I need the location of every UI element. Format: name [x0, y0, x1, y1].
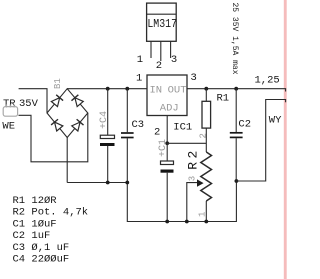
svg-text:C3 Ø,1 uF: C3 Ø,1 uF	[13, 242, 70, 254]
svg-text:2: 2	[156, 60, 162, 72]
capacitor C4 bottom wire	[107, 146, 109, 183]
svg-text:1,25: 1,25	[255, 75, 280, 87]
svg-text:35V: 35V	[19, 98, 39, 110]
svg-text:25 35V 1,5A max: 25 35V 1,5A max	[230, 3, 239, 75]
junction C2 bottom / output return node	[235, 179, 239, 183]
capacitor C3 plates	[121, 132, 134, 134]
capacitor C4 electrolytic: top wire	[107, 89, 109, 136]
svg-text:WY: WY	[269, 115, 282, 127]
svg-text:B1: B1	[53, 78, 63, 89]
capacitor C2: top wire	[235, 89, 237, 132]
svg-text:R2: R2	[186, 151, 201, 170]
resistor R1: top wire	[205, 89, 207, 102]
svg-text:C2: C2	[238, 119, 251, 131]
capacitor C4 negative plate (solid)	[100, 143, 115, 146]
capacitor C3: top wire	[126, 89, 128, 133]
junction C3 bottom	[125, 181, 129, 185]
svg-text:1: 1	[136, 73, 142, 85]
svg-text:LM317: LM317	[147, 18, 177, 31]
resistor R1 body	[202, 101, 211, 128]
capacitor C2 plates	[230, 132, 243, 134]
wire rail: bridge + output to IC1 IN	[67, 88, 147, 90]
resistor R1 bottom wire to pot	[205, 128, 207, 152]
bridge rectifier B1 diamond	[47, 89, 88, 138]
junction C4 top	[106, 87, 110, 91]
pink window border line (right edge)	[284, 0, 287, 279]
ground rail segment A	[67, 181, 236, 222]
pin leg 3	[170, 41, 172, 58]
wire ADJ node to pot top	[167, 142, 206, 144]
op-amp/regulator IC1 box	[147, 75, 187, 116]
svg-text:C1 1ØuF: C1 1ØuF	[13, 218, 57, 230]
capacitor C1 bottom wire	[166, 173, 168, 222]
svg-text:C4 22ØØuF: C4 22ØØuF	[13, 254, 70, 266]
svg-text:WE: WE	[2, 121, 15, 133]
transformer icon TR	[3, 104, 17, 116]
TO-220 tab line	[147, 13, 177, 15]
potentiometer R2 zigzag	[201, 152, 212, 201]
svg-text:C2 1uF: C2 1uF	[13, 230, 51, 242]
wire output return to WY terminal	[236, 100, 285, 182]
capacitor C1 electrolytic: top wire	[166, 143, 168, 161]
wire input top from TR	[19, 89, 47, 113]
svg-text:2: 2	[199, 133, 209, 138]
capacitor C1 negative plate (solid)	[161, 170, 174, 173]
svg-text:R1: R1	[217, 92, 230, 104]
svg-text:C3: C3	[132, 119, 145, 131]
capacitor C2 bottom wire	[235, 138, 237, 181]
pin leg 2	[160, 41, 162, 61]
svg-text:3: 3	[191, 72, 197, 84]
junction R1 top	[204, 87, 208, 91]
junction C4 bottom	[106, 181, 110, 185]
svg-text:2: 2	[154, 127, 160, 139]
svg-text:ADJ: ADJ	[160, 103, 179, 115]
svg-text:TR: TR	[3, 98, 16, 110]
junction R2 bottom	[204, 220, 208, 224]
junction wiper ground	[185, 220, 189, 224]
wiper wire of R2	[187, 183, 198, 222]
transistor package U-top: TO-220 outline	[147, 3, 177, 41]
wire input bottom from WE	[19, 113, 88, 162]
svg-text:1: 1	[137, 54, 143, 66]
svg-text:3: 3	[171, 54, 177, 66]
svg-text:R1 12ØR: R1 12ØR	[13, 195, 58, 207]
ground wire bridge minus down	[66, 138, 68, 183]
wire IC1 ADJ down	[166, 116, 168, 144]
junction C3 top	[125, 87, 129, 91]
svg-text:+C4: +C4	[99, 111, 110, 129]
svg-text:IC1: IC1	[173, 122, 192, 134]
diode D upper-right	[71, 95, 83, 107]
wiper arrowhead	[197, 179, 204, 186]
junction C2 top	[234, 87, 238, 91]
svg-text:R2 Pot. 4,7k: R2 Pot. 4,7k	[13, 207, 89, 219]
capacitor C1 positive plate (hollow)	[161, 161, 174, 165]
svg-text:OUT: OUT	[168, 85, 187, 97]
pin leg 1	[150, 41, 152, 58]
svg-text:3: 3	[188, 176, 198, 181]
capacitor C3 bottom wire	[126, 138, 128, 182]
svg-text:IN: IN	[150, 85, 163, 97]
wire IC1 OUT rail to right edge	[187, 89, 286, 92]
wire R2 bottom to ground rail	[205, 201, 207, 222]
diode D upper-left	[51, 95, 63, 107]
junction ADJ node	[165, 141, 169, 145]
diode D lower-left	[51, 119, 63, 131]
capacitor C4 positive plate (hollow)	[100, 135, 114, 138]
svg-text:+C1: +C1	[158, 139, 169, 157]
junction C1 bottom	[165, 220, 169, 224]
diode D lower-right	[71, 119, 83, 131]
